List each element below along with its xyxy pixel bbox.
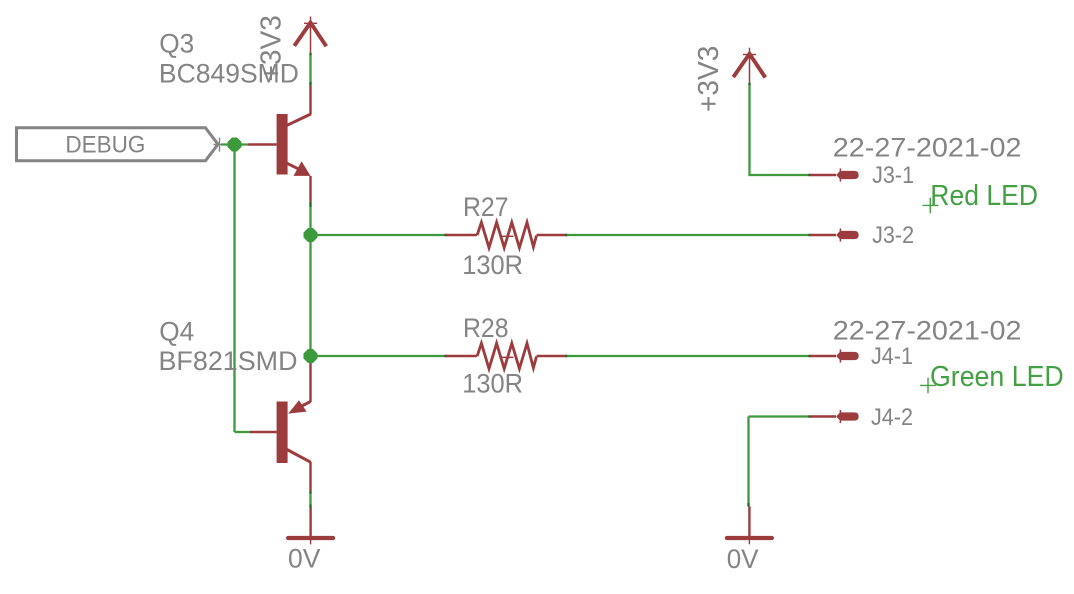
pin end tick — [309, 202, 311, 207]
wire J4-2 vertical — [747, 417, 749, 504]
wire Q4 collector to ground — [309, 494, 311, 504]
pin end tick — [809, 234, 812, 236]
wire +3V3 to Q3 collector — [309, 56, 311, 82]
wire Q4 base — [235, 431, 251, 433]
wire node to R27 — [311, 234, 447, 236]
pin end tick — [309, 53, 311, 56]
svg-text:22-27-2021-02: 22-27-2021-02 — [833, 315, 1022, 345]
power +3V3 symbol right — [733, 48, 765, 83]
pin end tick Q4 collector — [309, 491, 311, 494]
svg-text:Red LED: Red LED — [930, 180, 1038, 212]
pin end tick — [309, 505, 311, 509]
pin end tick — [309, 82, 311, 86]
pin Q3 base — [248, 143, 277, 145]
svg-text:DEBUG: DEBUG — [65, 132, 145, 159]
pin end tick — [748, 83, 750, 86]
flag DEBUG — [17, 128, 219, 161]
wire +3V3 to J3-1 — [750, 86, 811, 175]
svg-text:Q3: Q3 — [159, 29, 194, 59]
svg-text:J3-1: J3-1 — [872, 162, 914, 189]
resistor R28 — [445, 343, 569, 368]
svg-text:130R: 130R — [462, 368, 523, 398]
transistor Q4 (PNP BF821SMD) — [277, 356, 311, 491]
power +3V3 symbol left — [294, 17, 326, 53]
svg-text:BF821SMD: BF821SMD — [159, 346, 298, 376]
pin end tick — [809, 415, 812, 417]
pin J3-2 — [810, 228, 859, 241]
wire Q3 emitter to node — [309, 207, 311, 235]
pin Q4 base — [250, 431, 277, 433]
junction node DEBUG — [228, 138, 242, 152]
svg-text:J4-2: J4-2 — [871, 404, 913, 431]
wire R27 to J3-2 — [567, 234, 810, 236]
wire node to R28 node — [309, 235, 311, 356]
svg-text:130R: 130R — [462, 250, 523, 280]
svg-text:+3V3: +3V3 — [693, 46, 725, 112]
pin end tick — [747, 503, 749, 507]
junction node R27 — [304, 228, 318, 242]
wire J4-2 horizontal — [749, 415, 811, 417]
pin J4-2 — [810, 410, 859, 423]
transistor Q3 (NPN BC849SMD) — [277, 86, 311, 202]
svg-text:0V: 0V — [288, 543, 320, 573]
svg-text:J3-2: J3-2 — [872, 222, 914, 249]
pin end tick — [809, 355, 812, 357]
ground 0V left — [288, 508, 333, 544]
pin J4-1 — [810, 349, 859, 362]
svg-text:22-27-2021-02: 22-27-2021-02 — [833, 133, 1022, 163]
pin end tick — [809, 174, 812, 176]
wire DEBUG vertical — [233, 145, 235, 433]
wire R28 to J4-1 — [567, 355, 810, 357]
svg-text:Green LED: Green LED — [930, 361, 1064, 393]
pin cross at DEBUG tip — [214, 138, 226, 152]
svg-text:R28: R28 — [463, 313, 509, 343]
svg-text:J4-1: J4-1 — [871, 343, 913, 370]
svg-text:0V: 0V — [727, 544, 759, 574]
label Green LED — [920, 361, 1064, 393]
svg-text:Q4: Q4 — [159, 316, 194, 346]
wire DEBUG to junction — [221, 143, 248, 145]
wire node to R28 — [311, 355, 447, 357]
ground 0V right — [727, 507, 772, 545]
label Red LED — [922, 180, 1038, 214]
junction node R28 — [304, 349, 318, 363]
pin J3-1 — [810, 168, 859, 181]
resistor R27 — [445, 222, 569, 247]
svg-text:BC849SMD: BC849SMD — [159, 59, 299, 89]
svg-text:R27: R27 — [463, 192, 509, 222]
